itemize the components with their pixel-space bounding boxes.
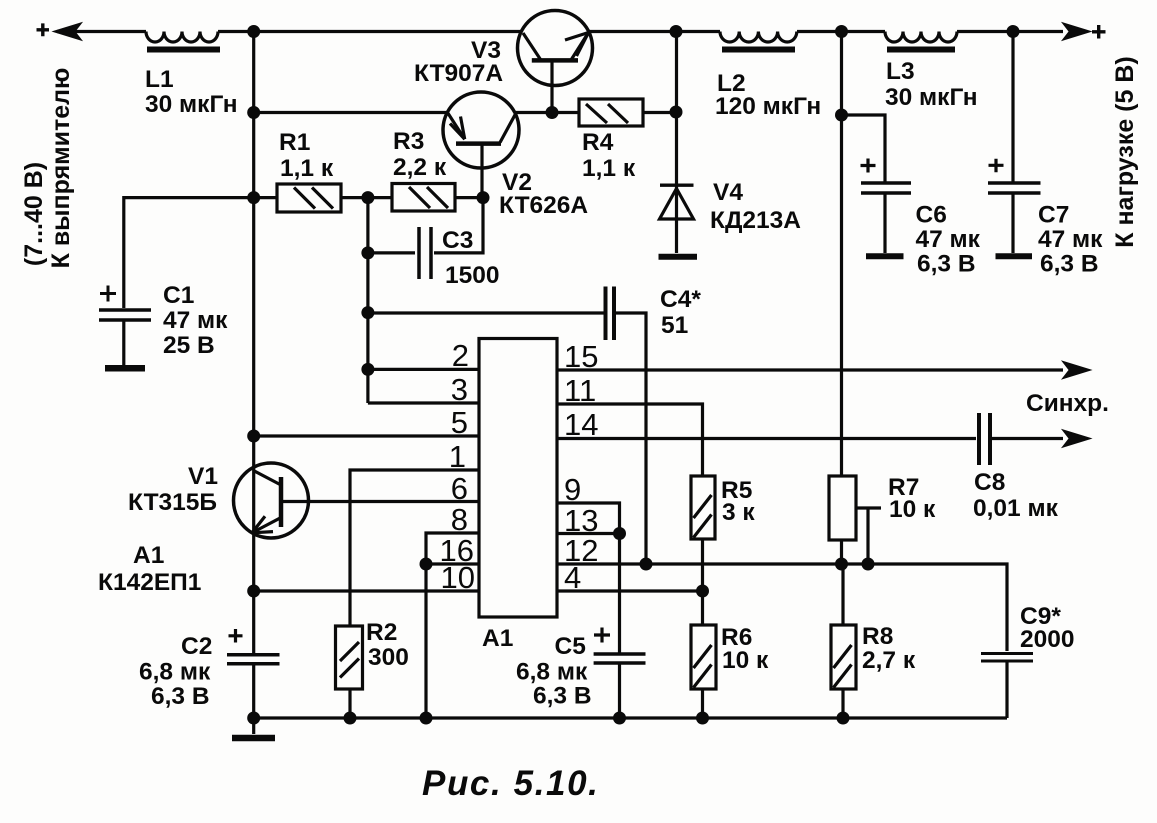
svg-text:А1: А1 [133, 542, 164, 569]
wire pin9 elbow [557, 503, 620, 534]
capacitor C9 [981, 654, 1033, 719]
svg-text:C5: C5 [555, 633, 586, 660]
svg-text:6,3 В: 6,3 В [151, 683, 210, 710]
svg-text:КД213А: КД213А [710, 207, 801, 234]
svg-text:2000: 2000 [1020, 626, 1075, 653]
ground under C1 [105, 365, 145, 372]
resistor R2 [336, 626, 363, 718]
output arrow (right, +) [1063, 23, 1106, 40]
transistor V1 [234, 463, 480, 538]
transistor V3 [518, 11, 593, 113]
svg-text:Рис. 5.10.: Рис. 5.10. [422, 764, 599, 803]
svg-text:1,1 к: 1,1 к [280, 155, 334, 182]
node pin2 tap [361, 363, 374, 376]
svg-text:10 к: 10 к [889, 496, 936, 523]
wire pin11 to R5 [557, 404, 703, 476]
node bottom R2 [344, 712, 357, 725]
svg-text:C2: C2 [181, 633, 212, 660]
wire to C4 [368, 311, 604, 314]
svg-text:К нагрузке (5 В): К нагрузке (5 В) [1111, 56, 1139, 247]
svg-text:C1: C1 [163, 282, 194, 309]
resistor R7 [829, 476, 881, 564]
transistor V2 [443, 92, 519, 198]
node R7 tap/pin12 [862, 558, 875, 571]
wire pin8 elbow [426, 533, 479, 718]
svg-text:25 В: 25 В [163, 332, 215, 359]
inductor L3 [885, 32, 957, 50]
wire top rail V3 to L2 [589, 30, 720, 33]
node pin15 feed tap [361, 306, 374, 319]
svg-text:К выпрямителю: К выпрямителю [47, 68, 75, 269]
svg-text:R4: R4 [582, 129, 614, 156]
bottom ground rail [254, 716, 1007, 719]
svg-text:3 к: 3 к [722, 499, 755, 526]
svg-text:R2: R2 [366, 619, 397, 646]
IC A1 box [479, 339, 557, 618]
node bottom R6 [696, 712, 709, 725]
node C3 tap [361, 246, 374, 259]
wire R3 to V2 base [455, 196, 483, 199]
wire R7 branch vertical [840, 32, 843, 477]
svg-text:L3: L3 [886, 58, 915, 85]
svg-text:Синхр.: Синхр. [1026, 390, 1109, 417]
node C6 tap [835, 109, 848, 122]
capacitor C1 [99, 286, 151, 366]
svg-text:R3: R3 [393, 128, 424, 155]
resistor R4 [579, 99, 643, 126]
wire pin1 to R2 [350, 470, 479, 625]
node pin10 [247, 585, 260, 598]
ground under C7 [996, 253, 1033, 259]
wire V4 branch vertical [675, 32, 678, 254]
svg-text:11: 11 [564, 373, 596, 408]
node bottom C5 [613, 712, 626, 725]
node C7 tap [1007, 25, 1020, 38]
svg-text:8: 8 [451, 502, 468, 537]
svg-text:2,2 к: 2,2 к [393, 154, 447, 181]
svg-text:C4*: C4* [660, 286, 701, 313]
inductor L1 [146, 32, 220, 50]
wire pin16 [426, 562, 479, 565]
svg-text:1,1 к: 1,1 к [582, 155, 636, 182]
resistor R3 [392, 184, 455, 212]
svg-text:C7: C7 [1038, 202, 1069, 229]
svg-text:V1: V1 [188, 463, 218, 490]
svg-text:4: 4 [564, 560, 581, 595]
capacitor C7 [988, 32, 1041, 254]
input arrow (left, +) [37, 23, 82, 40]
capacitor C4 [606, 287, 647, 565]
wire top rail left [57, 30, 146, 33]
node bottom pin8 [420, 712, 433, 725]
svg-text:КТ907А: КТ907А [414, 60, 503, 87]
node C4/pin12 [640, 558, 653, 571]
ground symbol bottom [232, 718, 275, 738]
svg-text:К142ЕП1: К142ЕП1 [98, 569, 201, 596]
wire V2 collector to R4 [515, 111, 579, 114]
svg-text:5: 5 [451, 405, 468, 440]
svg-text:51: 51 [661, 312, 688, 339]
svg-text:L1: L1 [145, 66, 174, 93]
capacitor C5 [594, 534, 646, 719]
svg-text:6: 6 [451, 471, 468, 506]
svg-text:КТ315Б: КТ315Б [128, 489, 217, 516]
node V3-emitter rail / V4 branch [670, 25, 683, 38]
svg-text:47 мк: 47 мк [1038, 226, 1103, 253]
wire pin2 [368, 368, 479, 371]
node R4/V4 [670, 106, 683, 119]
svg-text:6,8 мк: 6,8 мк [139, 659, 211, 686]
wire pin12 long to C9 [557, 564, 1007, 651]
capacitor C8 [979, 413, 990, 465]
svg-text:3: 3 [451, 372, 468, 407]
wire pin13 [557, 532, 620, 535]
wire top rail L2 to L3 [797, 30, 885, 33]
wire pin5 [254, 434, 479, 437]
svg-text:15: 15 [564, 339, 598, 374]
svg-text:6,8 мк: 6,8 мк [516, 659, 588, 686]
svg-text:1: 1 [449, 439, 466, 474]
svg-text:C8: C8 [974, 469, 1005, 496]
svg-text:А1: А1 [482, 625, 513, 652]
svg-text:(7...40 В): (7...40 В) [20, 162, 48, 266]
svg-text:10: 10 [441, 560, 475, 595]
svg-text:1500: 1500 [445, 262, 500, 289]
wire R1-R3 [341, 196, 392, 199]
svg-text:2,7 к: 2,7 к [862, 647, 916, 674]
capacitor C6 [842, 115, 912, 253]
node R5/R6/pin4 [696, 585, 709, 598]
svg-text:14: 14 [564, 407, 598, 442]
svg-text:6,3 В: 6,3 В [917, 251, 976, 278]
ground under C6 [866, 253, 904, 259]
node L2/L3 rail [835, 25, 848, 38]
wire pin3 [368, 401, 479, 404]
wire C8 to sync arrow [992, 437, 1063, 440]
diode V4 [660, 185, 694, 219]
svg-text:0,01 мк: 0,01 мк [973, 495, 1059, 522]
sync arrow [1063, 430, 1090, 447]
wire second rail to V2 [254, 111, 448, 114]
wire top rail to V3 [218, 30, 521, 33]
node pin16/pin8 [420, 558, 433, 571]
svg-text:R1: R1 [279, 129, 310, 156]
svg-text:120 мкГн: 120 мкГн [715, 93, 821, 120]
svg-text:47 мк: 47 мк [163, 307, 228, 334]
wire pin4 [557, 589, 703, 592]
svg-text:30 мкГн: 30 мкГн [885, 84, 978, 111]
wire feedback vertical [366, 198, 369, 403]
wire pin10 [254, 589, 479, 592]
resistor R5 [691, 476, 715, 625]
svg-text:47 мк: 47 мк [916, 226, 981, 253]
wire left main vertical [252, 32, 255, 655]
node second rail left [247, 106, 260, 119]
wire top rail L3 to output [957, 30, 1063, 33]
svg-text:6,3 В: 6,3 В [533, 683, 592, 710]
svg-text:300: 300 [368, 644, 409, 671]
svg-text:9: 9 [564, 472, 581, 507]
node bottom x254 [247, 712, 260, 725]
capacitor C3 [368, 198, 483, 279]
resistor R1 [254, 184, 341, 212]
node C1/R1 [247, 191, 260, 204]
svg-text:КТ626А: КТ626А [499, 192, 588, 219]
wire pin14 / sync line [557, 437, 976, 440]
pin15 arrow [1063, 362, 1090, 379]
node R1/R3/C3 branch [361, 191, 374, 204]
svg-text:30 мкГн: 30 мкГн [145, 91, 238, 118]
wire pin15 long [557, 368, 1063, 371]
node pin5 [247, 430, 260, 443]
node pin9/pin13/C5 [613, 527, 626, 540]
svg-text:10 к: 10 к [722, 647, 769, 674]
svg-text:C6: C6 [916, 202, 947, 229]
svg-text:R8: R8 [862, 623, 893, 650]
node top-left [247, 25, 260, 38]
ground under V4 [659, 254, 698, 260]
resistor R6 [691, 625, 716, 718]
svg-text:6,3 В: 6,3 В [1040, 251, 1099, 278]
wire to C1 [124, 198, 254, 308]
node bottom R8 [837, 712, 850, 725]
svg-text:C3: C3 [442, 227, 473, 254]
node V2 base [477, 191, 490, 204]
node R7/pin12 [835, 558, 848, 571]
node V3 base [546, 106, 559, 119]
capacitor C2 [227, 629, 280, 718]
svg-text:2: 2 [452, 338, 469, 373]
resistor R8 [831, 564, 856, 718]
svg-text:V4: V4 [713, 179, 743, 206]
inductor L2 [720, 32, 797, 50]
wire R4 to V4 node [643, 111, 676, 114]
